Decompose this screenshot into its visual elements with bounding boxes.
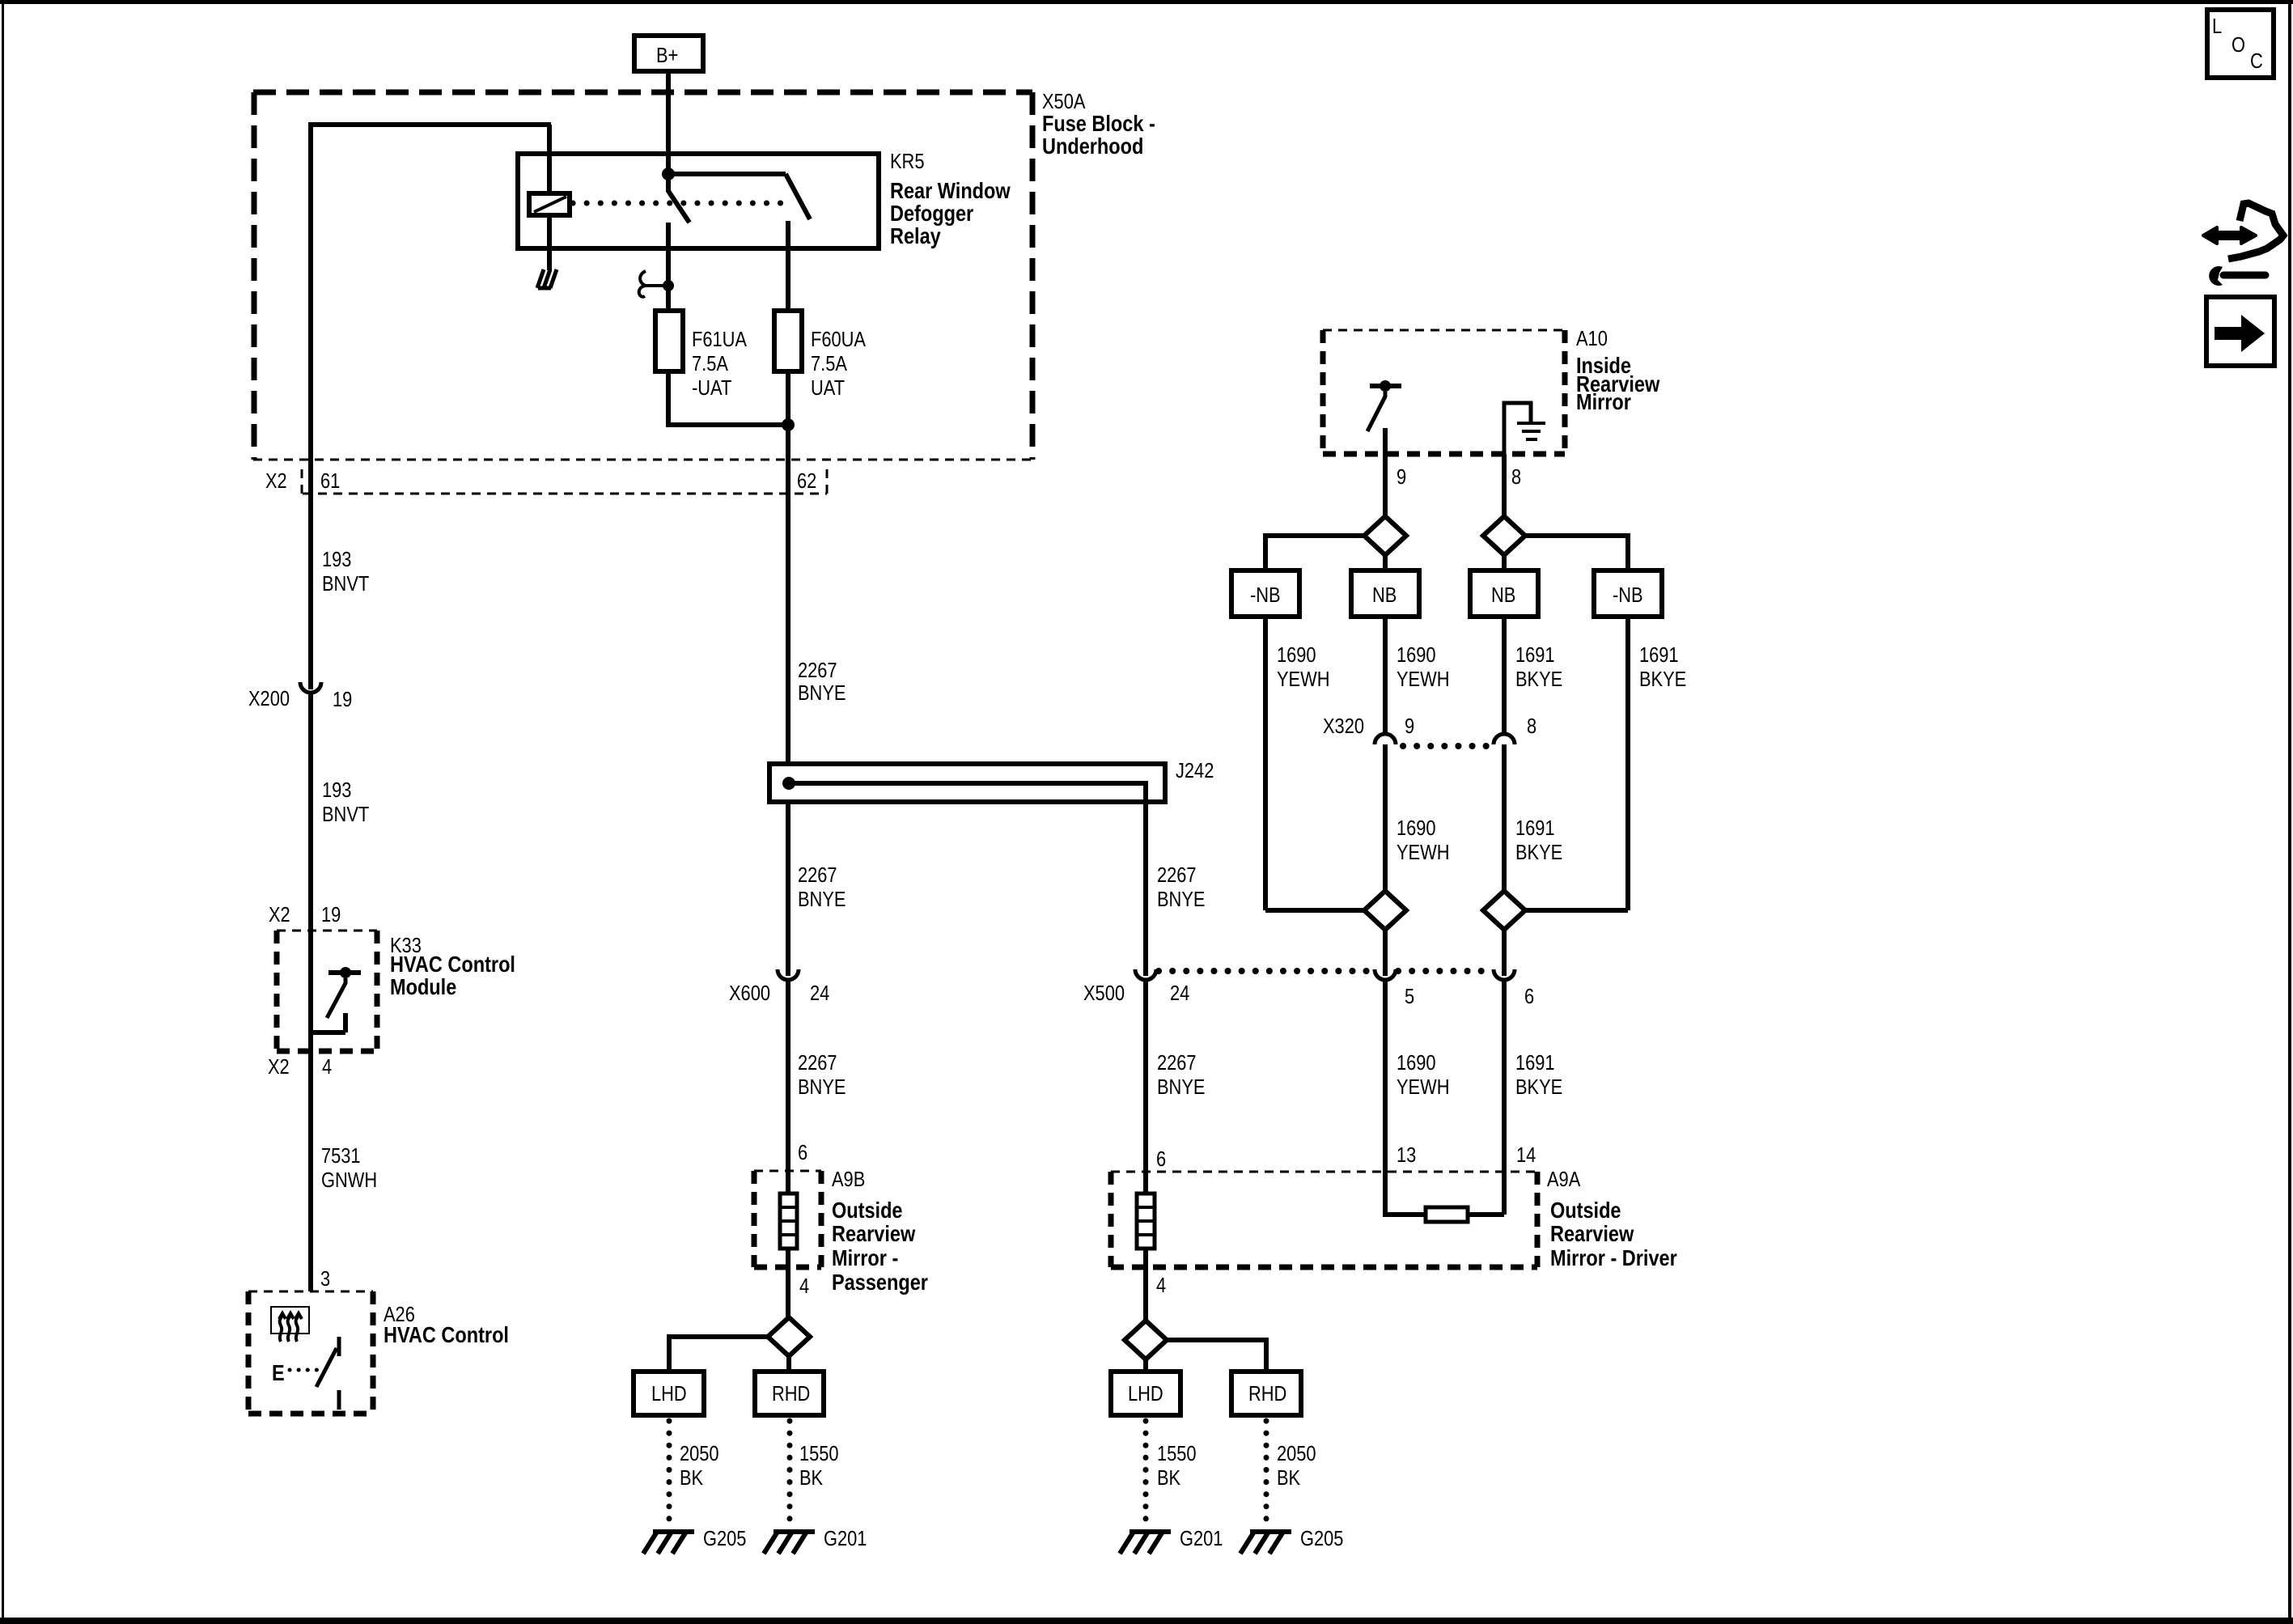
svg-text:-NB: -NB [1250, 583, 1281, 607]
HVAC control A26 dashed box [248, 1291, 373, 1414]
svg-text:BNYE: BNYE [798, 681, 846, 705]
svg-text:2267: 2267 [798, 659, 837, 682]
label circuit 1691 BKYE lower [1515, 1051, 1562, 1099]
label A26 HVAC Control [384, 1303, 509, 1347]
wire X500 to A9A element [1143, 980, 1148, 1194]
svg-text:GNWH: GNWH [321, 1168, 377, 1192]
wire diamond to NB 1691 [1502, 555, 1507, 570]
svg-text:BK: BK [1157, 1466, 1180, 1490]
RHD box passenger [755, 1372, 824, 1415]
wire X200 to K33 [308, 693, 313, 931]
svg-text:19: 19 [321, 903, 341, 926]
svg-text:4: 4 [1156, 1274, 1166, 1297]
LHD box driver [1111, 1372, 1180, 1415]
connector X2 band [302, 469, 827, 494]
svg-text:X320: X320 [1323, 714, 1364, 738]
relay KR5 coil [529, 125, 570, 270]
label X50A Fuse Block - Underhood [1042, 90, 1155, 159]
label circuit 1691 BKYE col4 [1639, 643, 1686, 691]
svg-text:G205: G205 [1300, 1527, 1343, 1550]
wire diamond to connector 6 [1502, 930, 1507, 976]
svg-text:YEWH: YEWH [1397, 668, 1449, 691]
svg-text:-UAT: -UAT [692, 376, 732, 400]
wire J242 to X500 [1143, 802, 1148, 976]
svg-text:G205: G205 [703, 1527, 746, 1550]
svg-text:X50A: X50A [1042, 90, 1085, 113]
svg-text:HVAC Control: HVAC Control [390, 952, 515, 977]
outside mirror A9A dashed box [1111, 1172, 1537, 1267]
svg-text:1691: 1691 [1639, 643, 1679, 667]
ground inside A10 [1504, 403, 1545, 454]
svg-text:24: 24 [810, 982, 829, 1005]
label A9B Outside Rearview Mirror - Passenger [832, 1168, 928, 1295]
svg-text:BKYE: BKYE [1639, 668, 1686, 691]
forward arrow box [2206, 297, 2274, 366]
wire left branch from relay coil [311, 125, 551, 689]
labels X2 61 62 [265, 469, 816, 493]
relay KR5 box [518, 154, 879, 248]
ground G201 driver [1120, 1527, 1223, 1554]
svg-text:NB: NB [1372, 583, 1397, 607]
svg-text:1690: 1690 [1397, 643, 1436, 667]
mirror fold resistor inside A9A [1385, 980, 1504, 1222]
svg-text:Rearview: Rearview [1550, 1222, 1634, 1246]
svg-text:1691: 1691 [1515, 643, 1555, 667]
svg-text:4: 4 [322, 1055, 332, 1079]
svg-text:KR5: KR5 [890, 150, 924, 173]
svg-text:F60UA: F60UA [811, 328, 866, 351]
svg-text:Outside: Outside [1550, 1198, 1621, 1223]
svg-text:BNYE: BNYE [1157, 1075, 1205, 1099]
LOC legend box [2207, 10, 2274, 78]
outside mirror A9B dashed box [754, 1171, 821, 1267]
thermal switch inside A26 [272, 1337, 339, 1410]
LHD box passenger [634, 1372, 704, 1415]
svg-text:1691: 1691 [1515, 816, 1555, 840]
svg-text:6: 6 [798, 1141, 807, 1164]
label K33 HVAC Control Module [390, 934, 515, 999]
svg-text:2267: 2267 [798, 863, 837, 887]
svg-text:2050: 2050 [1277, 1442, 1316, 1465]
label circuit 1691 BKYE mid [1515, 816, 1562, 864]
svg-text:YEWH: YEWH [1397, 1075, 1449, 1099]
heater icon inside A26 [271, 1307, 309, 1342]
svg-text:6: 6 [1524, 985, 1534, 1008]
svg-text:2267: 2267 [1157, 863, 1197, 887]
svg-text:19: 19 [333, 688, 352, 711]
svg-text:3: 3 [320, 1267, 330, 1291]
svg-text:G201: G201 [1180, 1527, 1223, 1550]
label A9A Outside Rearview Mirror - Driver [1547, 1168, 1677, 1270]
labels X2 19 at K33 [269, 903, 341, 926]
wire NB1 to X320 [1383, 617, 1388, 734]
svg-text:6: 6 [1156, 1147, 1166, 1171]
label circuit 1690 YEWH mid [1397, 816, 1449, 864]
splice diamond driver [1125, 1321, 1167, 1359]
svg-text:Rear Window: Rear Window [890, 179, 1011, 203]
svg-text:Outside: Outside [832, 1198, 903, 1223]
wire outer right joins diamond [1525, 908, 1628, 913]
svg-text:2267: 2267 [1157, 1051, 1197, 1075]
label circuit 2267 BNYE above A9B [798, 1051, 846, 1099]
wire NB2 to X320 [1502, 617, 1507, 734]
wire A9B to diamond [786, 1249, 790, 1317]
svg-text:BNYE: BNYE [798, 1075, 846, 1099]
label circuit 193 BNVT lower [322, 778, 370, 826]
wire diamond to LHD driver [1143, 1359, 1148, 1372]
pigtail repair icon [2203, 203, 2283, 286]
svg-text:Defogger: Defogger [890, 201, 973, 226]
svg-text:Mirror: Mirror [1576, 390, 1631, 414]
fuse block X50A dashed box [253, 92, 1032, 460]
label KR5 Rear Window Defogger Relay [890, 150, 1011, 248]
page border frame [0, 0, 2293, 4]
connector X320 [1323, 714, 1536, 746]
connector X600 [729, 969, 829, 1005]
svg-text:A9B: A9B [832, 1168, 865, 1191]
switch inside A10 [1367, 380, 1401, 454]
ground G201 passenger [764, 1527, 867, 1554]
relay actuation dotted line [573, 201, 782, 206]
splice diamond passenger [768, 1317, 810, 1356]
wire -NB2 down to lower diamond [1625, 617, 1630, 910]
ground wire 1550 BK driver [1146, 1421, 1197, 1529]
bus bar inside J242 [782, 777, 1146, 802]
inside rearview mirror A10 dashed box [1323, 330, 1565, 454]
svg-text:7531: 7531 [321, 1144, 361, 1168]
svg-text:4: 4 [799, 1274, 809, 1298]
svg-text:Mirror - Driver: Mirror - Driver [1550, 1246, 1677, 1270]
wire B+ to relay [666, 71, 671, 174]
svg-text:YEWH: YEWH [1277, 668, 1329, 691]
label circuit 2267 BNYE above X600 [798, 863, 846, 911]
heater element inside A9A [1137, 1194, 1155, 1249]
option box NB 1 [1351, 570, 1419, 617]
labels X2 4 below K33 [268, 1055, 332, 1079]
splice diamond BKYE [1483, 516, 1525, 555]
svg-text:F61UA: F61UA [692, 328, 747, 351]
svg-text:UAT: UAT [811, 376, 845, 400]
RHD box driver [1231, 1372, 1301, 1415]
wire K33 to A26 [308, 1051, 313, 1291]
svg-text:Mirror -: Mirror - [832, 1246, 898, 1270]
svg-text:1550: 1550 [799, 1442, 839, 1465]
svg-text:BNVT: BNVT [322, 572, 370, 596]
fuse F61UA [655, 311, 683, 371]
svg-text:1690: 1690 [1397, 1051, 1436, 1075]
wire diamond to RHD driver [1167, 1340, 1266, 1372]
wire diamond to RHD [786, 1356, 791, 1372]
svg-text:13: 13 [1397, 1143, 1416, 1167]
svg-text:8: 8 [1511, 465, 1521, 489]
ground wire 1550 BK [790, 1421, 839, 1529]
wire X320 down BKYE [1502, 744, 1507, 891]
svg-text:Fuse Block -: Fuse Block - [1042, 112, 1155, 136]
wire A9A to diamond driver [1143, 1249, 1148, 1321]
svg-text:9: 9 [1397, 465, 1406, 489]
HVAC control module K33 dashed box [277, 931, 377, 1051]
label F61UA 7.5A -UAT [692, 328, 747, 400]
svg-text:BNVT: BNVT [322, 803, 370, 826]
connector pin 5 [1375, 969, 1414, 1008]
battery feed B+ [634, 36, 703, 71]
wire fuse outputs junction [668, 371, 795, 764]
svg-text:2050: 2050 [680, 1442, 719, 1465]
label circuit 1690 YEWH lower [1397, 1051, 1449, 1099]
dotted connector line X500 to driver connectors [1159, 968, 1492, 974]
ground G205 driver [1240, 1527, 1343, 1554]
label A10 Inside Rearview Mirror [1576, 327, 1660, 414]
svg-text:BKYE: BKYE [1515, 841, 1562, 864]
svg-text:RHD: RHD [1248, 1382, 1286, 1406]
svg-text:1690: 1690 [1277, 643, 1316, 667]
svg-text:Passenger: Passenger [832, 1270, 928, 1295]
svg-text:X2: X2 [268, 1055, 290, 1079]
wire -NB1 down to lower diamond [1263, 617, 1268, 910]
wire pin 8 to diamond [1502, 454, 1507, 517]
svg-text:62: 62 [797, 469, 816, 493]
svg-text:7.5A: 7.5A [811, 352, 847, 375]
svg-text:8: 8 [1527, 714, 1536, 738]
svg-text:NB: NB [1491, 583, 1515, 607]
wire diamond to LHD [669, 1337, 768, 1372]
label circuit 2267 BNYE above X500 [1157, 863, 1205, 911]
ground wire 2050 BK driver [1266, 1421, 1316, 1529]
svg-text:5: 5 [1405, 985, 1414, 1008]
splice diamond lower YEWH [1364, 891, 1406, 930]
svg-text:Relay: Relay [890, 224, 941, 248]
wire pin 9 to diamond [1383, 454, 1388, 517]
svg-text:Underhood: Underhood [1042, 134, 1143, 159]
svg-text:J242: J242 [1176, 759, 1214, 782]
svg-text:193: 193 [322, 778, 351, 802]
svg-text:61: 61 [320, 469, 340, 493]
wire J242 to X600 [786, 802, 790, 976]
svg-text:BK: BK [680, 1466, 703, 1490]
wire X600 to A9B [786, 980, 790, 1194]
relay KR5 contacts [662, 167, 810, 311]
label circuit 2267 BNYE at A9A [1157, 1051, 1205, 1099]
label F60UA 7.5A UAT [811, 328, 866, 400]
label circuit 1690 YEWH col2 [1397, 643, 1449, 691]
svg-text:G201: G201 [824, 1527, 867, 1550]
svg-text:Rearview: Rearview [832, 1222, 916, 1246]
svg-text:YEWH: YEWH [1397, 841, 1449, 864]
svg-text:X500: X500 [1083, 982, 1125, 1005]
svg-text:-NB: -NB [1613, 583, 1643, 607]
splice pack J242 box [769, 764, 1165, 802]
label circuit 1690 YEWH col1 [1277, 643, 1329, 691]
svg-text:A9A: A9A [1547, 1168, 1580, 1191]
wire diamond to connector 5 [1383, 930, 1388, 976]
splice diamond YEWH [1364, 516, 1406, 555]
option box -NB 1 [1231, 570, 1299, 617]
option box -NB 2 [1594, 570, 1662, 617]
wire diamond to -NB left [1265, 536, 1364, 570]
svg-text:LHD: LHD [1128, 1382, 1163, 1406]
svg-text:BKYE: BKYE [1515, 668, 1562, 691]
label circuit 193 BNVT upper [322, 548, 370, 596]
svg-text:LHD: LHD [651, 1382, 687, 1406]
svg-text:RHD: RHD [772, 1382, 810, 1406]
svg-text:14: 14 [1516, 1143, 1536, 1167]
svg-text:BNYE: BNYE [1157, 888, 1205, 911]
svg-text:O: O [2232, 33, 2245, 57]
svg-text:L: L [2212, 15, 2222, 38]
splice diamond lower BKYE [1483, 891, 1525, 930]
option box NB 2 [1470, 570, 1538, 617]
svg-text:A10: A10 [1576, 327, 1608, 350]
wire diamond to -NB right [1525, 536, 1628, 570]
svg-text:BK: BK [1277, 1466, 1300, 1490]
connector X500 [1083, 969, 1189, 1005]
wire outer left joins diamond [1265, 908, 1364, 913]
svg-text:9: 9 [1405, 714, 1414, 738]
svg-text:1691: 1691 [1515, 1051, 1555, 1075]
svg-text:7.5A: 7.5A [692, 352, 728, 375]
svg-text:BK: BK [799, 1466, 823, 1490]
fuse F60UA [774, 311, 802, 371]
svg-text:1690: 1690 [1397, 816, 1436, 840]
heater element inside A9B [780, 1194, 797, 1249]
connector pin 6 [1494, 969, 1534, 1008]
fuse branch tap [639, 271, 674, 297]
ground wire 2050 BK [669, 1421, 719, 1529]
label circuit 1691 BKYE col3 [1515, 643, 1562, 691]
svg-text:X600: X600 [729, 982, 770, 1005]
svg-text:X2: X2 [269, 903, 290, 926]
svg-text:B+: B+ [656, 44, 678, 67]
svg-text:BNYE: BNYE [798, 888, 846, 911]
svg-text:X2: X2 [265, 469, 287, 493]
svg-text:X200: X200 [248, 687, 290, 710]
svg-text:24: 24 [1170, 982, 1189, 1005]
wire diamond to NB 1690 [1383, 555, 1388, 570]
svg-text:1550: 1550 [1157, 1442, 1197, 1465]
label circuit 7531 GNWH [321, 1144, 377, 1192]
svg-text:HVAC Control: HVAC Control [384, 1323, 509, 1347]
svg-text:193: 193 [322, 548, 351, 571]
switch inside K33 [311, 931, 361, 1051]
ground G205 passenger [643, 1527, 746, 1554]
svg-text:E: E [272, 1361, 285, 1385]
svg-text:Module: Module [390, 975, 456, 999]
svg-text:C: C [2250, 49, 2263, 73]
label circuit 2267 BNYE above J242 [798, 659, 846, 705]
relay coil ground [537, 269, 557, 288]
svg-text:BKYE: BKYE [1515, 1075, 1562, 1099]
connector X200 [248, 682, 352, 711]
svg-text:2267: 2267 [798, 1051, 837, 1075]
wire X320 down YEWH [1383, 744, 1388, 891]
